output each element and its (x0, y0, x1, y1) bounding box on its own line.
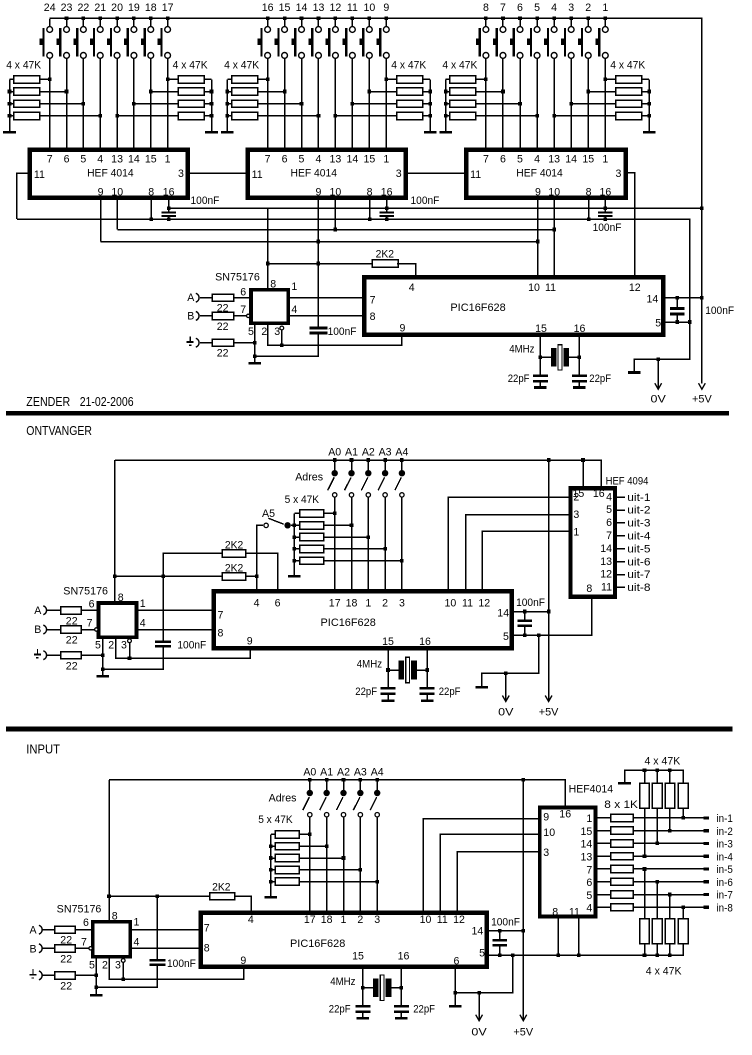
node rail dots ontvanger (333, 458, 337, 462)
wire U2 pin9 (317, 198, 319, 242)
svg-text:14: 14 (565, 153, 577, 165)
wire U7 pin16 (426, 648, 428, 687)
node pin16 xtal ont (425, 668, 429, 672)
wire +5V branch to 2K2 lower (115, 575, 222, 577)
svg-text:uit-6: uit-6 (627, 556, 650, 568)
resistor RN4 R4 (397, 112, 423, 119)
wire RN4 R2 to button line (369, 91, 397, 93)
svg-text:0V: 0V (471, 1027, 487, 1039)
wire R22c to pin5 line (234, 342, 255, 344)
svg-text:7: 7 (218, 609, 224, 621)
svg-text:8: 8 (586, 186, 592, 198)
svg-text:2: 2 (357, 914, 363, 926)
svg-text:4: 4 (134, 936, 140, 948)
switch S17 (167, 19, 169, 27)
switch S12 (334, 19, 336, 27)
svg-text:SN75176: SN75176 (215, 271, 260, 283)
svg-text:8: 8 (148, 186, 154, 198)
svg-text:5 x 47K: 5 x 47K (285, 494, 320, 506)
svg-text:4MHz: 4MHz (330, 976, 355, 988)
svg-text:7: 7 (204, 922, 210, 934)
svg-text:6: 6 (606, 517, 612, 529)
switch S3 (570, 19, 572, 27)
wire U1 pin8 (150, 198, 152, 220)
wire B to R22b (200, 315, 213, 317)
resistor RN1 R3 (14, 100, 40, 107)
svg-text:6: 6 (240, 286, 246, 298)
wire U11 pin4 to U10 pin8 (130, 947, 200, 949)
separator bar 1 (6, 411, 729, 416)
switch S18 (150, 19, 152, 27)
node earth/pin5 (253, 341, 257, 345)
wire R22e to U8 pin7 (81, 629, 94, 631)
svg-text:12: 12 (330, 2, 342, 14)
wire RN1 R3 to button line (40, 103, 84, 105)
node pin15 xtal inp (361, 986, 365, 990)
capacitor C9 100nF (524, 612, 526, 620)
resistor RN11 2 (652, 919, 662, 944)
inverter bubble U8 pin7 (95, 628, 98, 631)
svg-text:7: 7 (47, 153, 53, 165)
switch jumper A1 input (326, 780, 328, 790)
node RN2 bus junction 1 (210, 90, 214, 94)
microcontroller U7 PIC16F628 (214, 591, 512, 648)
svg-text:22: 22 (66, 660, 78, 672)
svg-text:4 x 47K: 4 x 47K (610, 60, 645, 72)
svg-text:A2: A2 (362, 447, 375, 459)
svg-text:HEF 4014: HEF 4014 (516, 168, 563, 180)
svg-text:22pF: 22pF (439, 686, 461, 698)
wire U2 pin16 (386, 198, 388, 209)
svg-text:1: 1 (602, 153, 608, 165)
switch S9 (385, 19, 387, 27)
wire R22d to U8 pin6 (81, 609, 98, 611)
svg-text:7: 7 (87, 618, 93, 630)
wire U9 to R1K-5 (596, 868, 611, 870)
microcontroller U5 PIC16F628 (364, 277, 663, 334)
switch S22 (82, 19, 84, 27)
node U2 pin10 clk (334, 228, 338, 232)
node A5 bus junction (293, 524, 297, 528)
switch A5 jumper (264, 523, 268, 527)
svg-text:Adres: Adres (295, 471, 323, 483)
wire RN4 R3 to button line (352, 103, 397, 105)
capacitor C14 22pF (355, 1005, 370, 1008)
resistor RN4 R1 (397, 76, 423, 83)
svg-text:22pF: 22pF (355, 686, 377, 698)
wire C12 to gnd (96, 966, 157, 987)
svg-text:A3: A3 (354, 767, 367, 779)
wire U4 pin2 (268, 323, 282, 345)
wire C8 to gnd (103, 648, 164, 670)
switch S23 (66, 19, 68, 27)
node 0V branch ont (537, 633, 541, 637)
wire R22b to U4 pin7 (234, 315, 246, 317)
wire earth to R22i (43, 974, 55, 976)
node RN6 bus junction 3 (647, 114, 651, 118)
svg-text:21-02-2006: 21-02-2006 (80, 395, 134, 409)
capacitor C6 22pF (533, 375, 548, 378)
svg-text:22pF: 22pF (508, 373, 530, 385)
svg-text:A2: A2 (337, 767, 350, 779)
wire U10 pin14 to +5V (487, 930, 524, 932)
connector earth inp (39, 971, 42, 980)
svg-text:11: 11 (601, 582, 612, 594)
svg-text:14: 14 (581, 839, 593, 851)
svg-text:12: 12 (453, 914, 465, 926)
inverter bubble U11 pin3 (121, 959, 125, 963)
svg-text:16: 16 (419, 636, 431, 648)
wire 2K2 to PIC pin4 (397, 264, 416, 278)
node pin14 C9 (523, 610, 527, 614)
svg-text:5: 5 (586, 890, 592, 902)
svg-text:A1: A1 (345, 447, 358, 459)
svg-text:4: 4 (534, 153, 540, 165)
wire R26 to PIC pin6 (246, 553, 278, 591)
node RN10 1 row (643, 854, 647, 858)
svg-text:A: A (34, 605, 42, 617)
svg-text:8: 8 (112, 910, 118, 922)
wire xtal right (569, 356, 580, 358)
node RN2 R4 junction (115, 114, 119, 118)
svg-text:4 x 47K: 4 x 47K (6, 60, 41, 72)
node U2 pin16 +5V (385, 206, 389, 210)
wire uit-1 (615, 496, 625, 498)
node +5V branch input (107, 894, 111, 898)
svg-text:10: 10 (528, 282, 540, 294)
svg-text:4 x 47K: 4 x 47K (391, 60, 426, 72)
wire in-1 (633, 817, 703, 819)
wire in-7 (633, 894, 703, 896)
switch jumper A4 (401, 460, 403, 470)
svg-text:3: 3 (568, 2, 574, 14)
wire uit-6 (615, 561, 625, 563)
svg-text:100nF: 100nF (167, 958, 196, 970)
wire uit-7 (615, 574, 625, 576)
svg-text:12: 12 (600, 569, 612, 581)
wire RN6 bus (648, 79, 650, 131)
wire U11 pin1 to U10 pin7 (130, 929, 200, 931)
resistor RN9 5 (611, 865, 634, 872)
node RN6 bus junction 2 (647, 102, 651, 106)
svg-text:5: 5 (534, 2, 540, 14)
svg-text:14: 14 (346, 153, 358, 165)
resistor RN9 1 (611, 814, 634, 821)
svg-text:in-3: in-3 (717, 839, 733, 851)
wire data bus (101, 241, 538, 243)
shift register U1 HEF 4014 (30, 150, 188, 198)
wire RN7 bus (293, 513, 295, 574)
svg-text:100nF: 100nF (491, 917, 520, 929)
inverter bubble U4 pin7 (247, 314, 250, 317)
terminal in-8 (704, 906, 710, 909)
crystal X1 4MHz (551, 348, 557, 367)
wire in-8 (633, 906, 703, 908)
wire RN8 R4 left (271, 869, 276, 871)
svg-text:4MHz: 4MHz (509, 344, 534, 356)
wire U11 pin5 to ground (95, 957, 97, 994)
node pin16 xtal inp (400, 986, 404, 990)
resistor RN7 R4 (300, 545, 324, 552)
svg-text:14: 14 (296, 2, 308, 14)
resistor R22g 22 (55, 926, 76, 933)
wire RN2 R2 to button line (151, 91, 179, 93)
svg-text:4: 4 (254, 598, 260, 610)
node RN5 bus junction 3 (444, 114, 448, 118)
node RN2 bus junction 3 (210, 114, 214, 118)
wire RN2 R1 to button line (168, 78, 179, 80)
wire 0V branch inp (455, 955, 512, 992)
node 0V tap (656, 357, 660, 361)
node RN8 R4 to A3 (359, 868, 363, 872)
svg-text:HEF4014: HEF4014 (569, 783, 614, 795)
wire RN7 R1 right (324, 512, 335, 514)
wire ground bus (17, 219, 690, 371)
node U3 pin9 data (536, 240, 540, 244)
wire U3 pin16 (604, 198, 606, 209)
resistor RN11 3 (665, 919, 675, 944)
wire U9 to R1K-1 (596, 817, 611, 819)
wire RN3 R1 to bus (227, 78, 231, 80)
node RN2 R3 junction (132, 102, 136, 106)
crystal X2 4MHz (398, 661, 404, 680)
node RN5 R2 junction (501, 90, 505, 94)
switch S10 (368, 19, 370, 27)
connector B ont (43, 625, 46, 634)
svg-text:A: A (187, 292, 195, 304)
svg-text:16: 16 (593, 488, 605, 500)
resistor RN9 3 (611, 840, 634, 847)
wire RN3 R1 to button line (258, 78, 268, 80)
svg-text:22: 22 (60, 981, 72, 993)
resistor RN2 R4 (178, 112, 204, 119)
microcontroller U10 PIC16F628 (201, 913, 487, 967)
wire RN4 R1 to button line (386, 78, 397, 80)
wire RN5 R1 to button line (476, 78, 486, 80)
svg-text:3: 3 (374, 914, 380, 926)
wire RN3 R2 to bus (227, 91, 231, 93)
svg-text:14: 14 (647, 293, 659, 305)
switch S1 (604, 19, 606, 27)
svg-text:4: 4 (551, 2, 557, 14)
wire R22g to U11 pin6 (75, 929, 93, 931)
resistor R22i 22 (55, 972, 76, 979)
svg-text:16: 16 (262, 2, 274, 14)
svg-text:9: 9 (383, 2, 389, 14)
svg-text:5: 5 (89, 959, 95, 971)
wire +5V bus (169, 207, 702, 209)
svg-text:14: 14 (472, 926, 484, 938)
svg-text:1: 1 (383, 153, 389, 165)
capacitor C5 100nF (676, 298, 678, 308)
svg-text:7: 7 (81, 936, 87, 948)
svg-text:A4: A4 (395, 447, 408, 459)
svg-text:22pF: 22pF (413, 1004, 435, 1016)
wire RN1 R1 to bus (10, 78, 14, 80)
svg-text:19: 19 (128, 2, 140, 14)
svg-text:11: 11 (252, 169, 263, 181)
inverter bubble U8 pin3 (128, 639, 132, 643)
earth input ont (37, 649, 39, 654)
node RN7 R5 to A4 (400, 559, 404, 563)
resistor R22b 22 (212, 312, 233, 319)
svg-text:6: 6 (83, 917, 89, 929)
connector A ont (43, 606, 46, 615)
svg-text:PIC16F628: PIC16F628 (450, 302, 505, 314)
wire U1 pin10 (116, 198, 118, 230)
ground RN8 (265, 896, 278, 899)
switch S7 (502, 19, 504, 27)
wire RN1 R1 to button line (40, 78, 50, 80)
svg-text:7: 7 (586, 864, 592, 876)
svg-text:2: 2 (102, 959, 108, 971)
wire RN6 R1 to button line (605, 78, 616, 80)
switch S20 (116, 19, 118, 27)
svg-text:10: 10 (548, 186, 560, 198)
wire in-3 (633, 842, 703, 844)
wire RN5 R3 to button line (476, 103, 520, 105)
svg-text:1: 1 (134, 916, 140, 928)
connector earth (196, 338, 199, 347)
terminal in-7 (704, 893, 710, 896)
svg-text:15: 15 (363, 153, 375, 165)
wire 0V branch (482, 635, 539, 686)
svg-text:HEF 4014: HEF 4014 (87, 168, 134, 180)
wire U9 pin11 gnd (578, 917, 580, 956)
node 2K2 line to C4 (317, 262, 321, 266)
wire U9 to R1K-4 (596, 855, 611, 857)
wire RN4 bus (429, 79, 431, 131)
ground RN4 (424, 131, 437, 134)
switch jumper A0 input (309, 780, 311, 790)
node U3 pin16 +5V (604, 206, 608, 210)
svg-text:9: 9 (535, 186, 541, 198)
node RN4 R2 junction (368, 90, 372, 94)
resistor RN8 R1 (275, 831, 299, 838)
switch S14 (301, 19, 303, 27)
svg-text:in-8: in-8 (717, 902, 733, 914)
switch S4 (553, 19, 555, 27)
wire RN3 R4 to button line (258, 115, 319, 117)
node rail junction dots (65, 17, 69, 21)
node U3 pin8 gnd (587, 217, 591, 221)
wire C4 to gnd line (255, 334, 319, 356)
node RN4 R3 junction (351, 102, 355, 106)
connector B (196, 312, 199, 321)
node RN10 2 bus (655, 769, 659, 773)
node U3 pin10 clk (552, 228, 556, 232)
node pin14 C5 (676, 296, 680, 300)
wire U1 pin9 (100, 198, 102, 242)
wire RN11 2 to in-6 (656, 882, 658, 919)
node RN7 bus 1 (293, 524, 297, 528)
wire RN4 R4 to bus (423, 115, 430, 117)
wire U1 pin16 (168, 198, 170, 209)
node RN6 R1 junction (603, 78, 607, 82)
resistor RN7 R1 (300, 510, 324, 517)
node RN5 bus junction 2 (444, 102, 448, 106)
svg-text:8 x 1K: 8 x 1K (604, 799, 638, 811)
node pin5 gnd rail (688, 320, 692, 324)
arrow 0V (657, 359, 659, 388)
switch S19 (133, 19, 135, 27)
node RN1 R1 junction (48, 78, 52, 82)
node 0V arrow inp (477, 991, 481, 995)
ground C15 (395, 1017, 408, 1020)
node RN10 4 row (682, 816, 686, 820)
wire U8 pin4 to U7 pin8 (137, 629, 214, 631)
resistor RN8 R3 (275, 854, 299, 861)
node RN3 bus junction 3 (226, 114, 230, 118)
connector A (196, 293, 199, 302)
svg-text:2K2: 2K2 (225, 539, 243, 551)
resistor RN8 R2 (275, 843, 299, 850)
svg-text:5: 5 (248, 326, 254, 338)
terminal in-6 (704, 880, 710, 883)
wire xtal right inp (391, 987, 401, 989)
wire R22i to U11 pin5 (75, 974, 96, 976)
node RN5 R1 junction (484, 78, 488, 82)
svg-text:14: 14 (128, 153, 140, 165)
node RN7 bus 3 (293, 547, 297, 551)
svg-text:13: 13 (548, 153, 560, 165)
node pin5 earth inp (95, 974, 99, 978)
wire RN6 R3 to bus (642, 103, 649, 105)
terminal in-2 (704, 829, 710, 832)
node RN11 3 gnd (668, 953, 672, 957)
resistor RN4 R3 (397, 100, 423, 107)
svg-text:15: 15 (382, 636, 394, 648)
node pin14 C13 (498, 929, 502, 933)
svg-text:2: 2 (261, 326, 267, 338)
wire RN8 R1 right (299, 833, 310, 835)
node branch to cap/2K2upper (161, 575, 165, 579)
wire gnd line input (487, 944, 684, 955)
separator bar 2 (6, 727, 732, 732)
resistor RN3 R3 (232, 100, 258, 107)
wire pins2-3 to PIC pin9 (282, 335, 402, 346)
wire RN10 3 to in-2 (669, 808, 671, 830)
svg-text:9: 9 (315, 186, 321, 198)
inverter bubble U4 pin3 (280, 326, 284, 330)
node RN5 R3 junction (518, 102, 522, 106)
wire RN2 R1 to bus (204, 78, 211, 80)
switch S21 (99, 19, 101, 27)
wire rail to SN pin8 (114, 460, 116, 603)
wire U8 pin1 to U7 pin7 (137, 609, 214, 611)
switch S15 (284, 19, 286, 27)
wire ontvanger +5V rail (115, 460, 601, 486)
crystal X3 4MHz (373, 979, 379, 998)
wire RN8 bus (270, 834, 272, 896)
wire RN7 R5 right (324, 560, 402, 562)
svg-text:14: 14 (600, 543, 612, 555)
switch S24 (49, 19, 51, 27)
wire uit-8 (615, 586, 625, 588)
wire U7 pin14 to +5V (512, 611, 549, 613)
svg-text:in-7: in-7 (717, 890, 733, 902)
wire U9 to R1K-2 (596, 830, 611, 832)
wire uit-5 (615, 548, 625, 550)
arrow 0V inp (478, 993, 480, 1020)
node RN2 R1 junction (166, 78, 170, 82)
wire U8 pin2 (116, 637, 130, 658)
svg-text:4: 4 (586, 903, 592, 915)
resistor R22f 22 (61, 652, 82, 659)
wire RN3 bus (226, 79, 228, 131)
svg-text:22pF: 22pF (589, 373, 611, 385)
wire branch to 2K2 (109, 895, 210, 897)
